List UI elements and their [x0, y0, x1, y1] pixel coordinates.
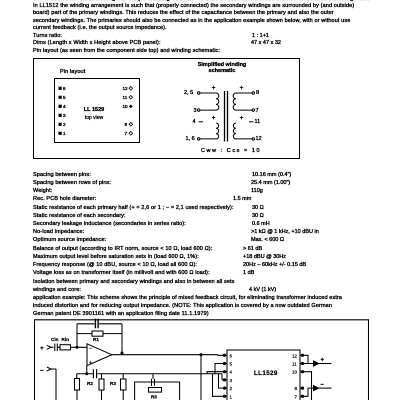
svg-text:1: 1 [230, 394, 233, 399]
pin 5 pad [59, 96, 62, 99]
capacitor Cin [55, 344, 60, 352]
pin 4 terminal label [193, 119, 196, 125]
paragraph line 3 [33, 18, 350, 24]
pin 5 num [63, 95, 66, 101]
pin 1 num [63, 131, 66, 137]
svg-text:Cin: Cin [51, 337, 59, 342]
wire pin10 tap [304, 372, 312, 400]
svg-text:+: + [40, 345, 44, 352]
pin 3 terminal label [194, 108, 197, 114]
wire feedback top rail [77, 323, 122, 325]
paragraph line 4 [33, 25, 167, 31]
pin 3 pad [59, 114, 62, 117]
wire pin4 lead [207, 372, 224, 374]
svg-text:5: 5 [230, 362, 233, 367]
pin 12 stub [300, 354, 304, 356]
pin 2 pad [59, 123, 62, 126]
pin 2,5 terminal label [184, 90, 193, 96]
resistor R2 [75, 379, 80, 391]
wire + output [304, 355, 318, 363]
svg-text:R3: R3 [110, 381, 116, 386]
primary winding P2 bottom-left [200, 123, 219, 139]
pin 6 pad [59, 87, 62, 90]
pin 10 num [123, 104, 128, 110]
svg-text:LL1529: LL1529 [254, 370, 278, 377]
wire feedback right vertical [121, 324, 123, 353]
svg-text:–: – [321, 382, 325, 388]
top partial cut line [33, 0, 369, 2]
paragraph line 2 [33, 10, 334, 16]
capacitance note [201, 148, 261, 154]
outer layout box [33, 58, 300, 159]
pin 4 pad [59, 105, 62, 108]
pin layout caption [33, 48, 220, 54]
wire op-amp output [112, 354, 218, 356]
pin 1 pad [59, 132, 62, 135]
wire - input down [55, 369, 57, 400]
svg-text:+: + [89, 360, 92, 366]
pin 4 stub [224, 371, 228, 373]
application paragraph [33, 295, 342, 301]
pin pads SVG (pin layout) [33, 58, 299, 158]
capacitor C3 [152, 374, 155, 386]
application circuit schematic [0, 318, 400, 400]
inner pcb rect [54, 78, 140, 143]
capacitor C1 [95, 319, 98, 329]
wire bus 2 [219, 374, 224, 388]
pin 7 num [125, 131, 128, 137]
label Pin layout [60, 69, 85, 75]
output arrow + [314, 361, 319, 366]
pin 7 stub [300, 395, 304, 397]
pin 8 num [125, 122, 128, 128]
svg-text:2: 2 [230, 386, 233, 391]
pin 4 num [63, 104, 66, 110]
wire feedback lower rail [77, 333, 122, 335]
pin 3 stub [224, 379, 228, 381]
node C output junction [200, 354, 202, 356]
resistor Rin [60, 345, 71, 350]
pin 5 stub [224, 363, 228, 365]
svg-text:7: 7 [295, 394, 298, 399]
svg-text:+: + [321, 358, 325, 364]
chip name LL1529 [81, 107, 107, 113]
junction output [121, 352, 123, 354]
pin 2 stub [224, 387, 228, 389]
svg-text:+: + [212, 115, 216, 122]
pin 2 num [63, 122, 66, 128]
resistor R3 [99, 379, 104, 390]
svg-text:R2: R2 [87, 381, 93, 386]
node A (inverting input junction) [76, 346, 78, 348]
svg-text:+: + [212, 85, 216, 92]
turns ratio row [33, 33, 62, 39]
wire pin3 lead [222, 379, 224, 381]
svg-text:−: − [89, 346, 92, 352]
wire + input to lower rail [86, 366, 88, 374]
svg-text:+: + [240, 85, 244, 92]
wire pin6 lead [218, 354, 224, 357]
pin 6 stub [224, 354, 228, 356]
secondary winding S2 bottom-right [233, 123, 252, 139]
op-amp U1 [87, 344, 112, 366]
svg-text:–: – [40, 367, 44, 374]
svg-text:11: 11 [292, 362, 297, 367]
svg-text:R5: R5 [151, 395, 157, 400]
pin 6 num [63, 86, 66, 92]
wire output down [200, 355, 202, 400]
svg-text:12: 12 [292, 353, 297, 358]
pin 1 stub [224, 395, 228, 397]
paragraph line 1 [33, 3, 354, 9]
polarity marks [212, 85, 244, 122]
wire pin5 lead [215, 364, 224, 374]
pin 11 pad [129, 96, 133, 100]
secondary winding S1 top-right [233, 93, 252, 110]
svg-text:+: + [240, 115, 244, 122]
svg-text:3: 3 [230, 378, 233, 383]
pin 11 terminal label [255, 119, 261, 125]
resistor R4 [121, 379, 127, 390]
wire feedback left vertical [76, 324, 78, 348]
node B [86, 373, 88, 375]
svg-text:6: 6 [230, 353, 233, 358]
svg-text:8: 8 [295, 386, 298, 391]
chip label top view [81, 115, 107, 121]
pin 8 pad [129, 123, 133, 127]
capacitor C2 [93, 369, 96, 378]
pin 8 stub [300, 387, 304, 389]
wire lower rail [77, 373, 222, 375]
input - terminal [47, 367, 56, 371]
pin 12 pad [129, 87, 133, 91]
svg-text:Rin: Rin [62, 337, 70, 342]
output arrow - [314, 386, 319, 391]
pin 12 num [123, 86, 128, 92]
wire bus 1 [213, 374, 224, 397]
pin 10 pad [129, 105, 133, 109]
primary winding P1 top-left [200, 93, 219, 110]
network sub-box [135, 382, 180, 400]
labels [40, 337, 325, 400]
pin 8 terminal label [256, 90, 259, 96]
pin 7 terminal label [256, 108, 259, 114]
schematic border frame [35, 320, 369, 400]
wire bus 3 [221, 374, 223, 380]
wire - output [304, 388, 318, 396]
transformer box LL1529 [227, 350, 300, 400]
pin 3 num [63, 113, 66, 119]
core [224, 91, 226, 142]
svg-text:R1: R1 [93, 337, 99, 342]
input + terminal [47, 345, 54, 349]
winding schematic title [182, 62, 262, 74]
pin 7 pad [129, 132, 133, 136]
pin 11 stub [300, 363, 304, 365]
pin 1,6 terminal label [186, 136, 195, 142]
svg-text:10: 10 [292, 370, 297, 375]
winding schematic transformer T1 [150, 58, 298, 158]
dims row [33, 40, 161, 46]
resistor R5 [149, 388, 162, 393]
resistor R1 [92, 331, 103, 336]
pin 11 num [123, 95, 128, 101]
pin 12 terminal label [256, 136, 262, 142]
pin 10 stub [300, 371, 304, 373]
svg-text:4: 4 [230, 370, 233, 375]
spec table [33, 172, 91, 178]
